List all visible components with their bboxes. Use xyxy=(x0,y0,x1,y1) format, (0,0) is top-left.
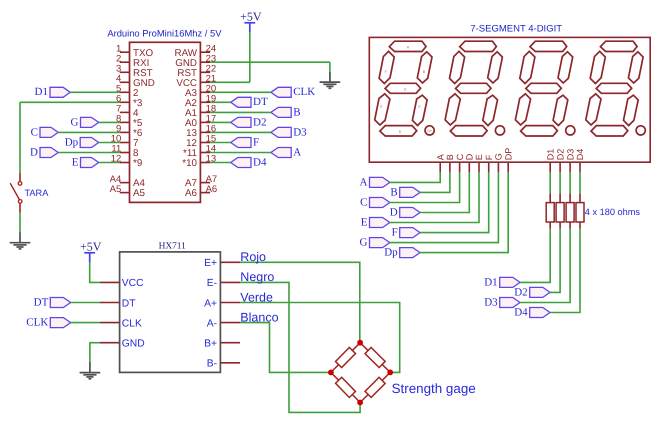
wire D to pin11 xyxy=(58,152,120,154)
module U2 HX711 body xyxy=(120,252,221,373)
svg-text:A5: A5 xyxy=(133,188,146,199)
wire D4 to resistor R4 xyxy=(550,229,580,313)
svg-text:TARA: TARA xyxy=(25,188,50,198)
wire D3 to resistor R3 xyxy=(520,229,570,303)
wire G to pin8 xyxy=(99,121,120,123)
svg-text:G: G xyxy=(404,87,407,91)
svg-text:D: D xyxy=(390,206,398,218)
svg-text:+5V: +5V xyxy=(240,10,262,24)
junction bridge right xyxy=(387,370,393,376)
wire pin19 to DT xyxy=(210,101,231,103)
wire TARA to ground xyxy=(19,213,21,232)
junction bridge bottom xyxy=(357,400,363,406)
svg-text:E: E xyxy=(72,156,79,168)
svg-text:D2: D2 xyxy=(253,116,266,128)
label D3 (digit select) xyxy=(500,298,520,308)
display digit 1 segments xyxy=(389,41,426,51)
display DS1 7-segment 4-digit body xyxy=(369,37,650,162)
display pin DP xyxy=(507,162,509,172)
display pin D3 xyxy=(569,162,571,172)
strain-gage resistor R_bl xyxy=(331,372,360,402)
svg-text:+5V: +5V xyxy=(80,240,102,254)
svg-text:D3: D3 xyxy=(565,149,575,161)
display pin B xyxy=(449,162,451,172)
strain-gage resistor R_tr xyxy=(360,343,390,373)
display pin D2 xyxy=(559,162,561,172)
svg-text:DP: DP xyxy=(503,148,513,161)
U1 pin A6 right xyxy=(200,192,210,194)
svg-text:D: D xyxy=(30,146,38,158)
svg-text:D4: D4 xyxy=(575,149,585,161)
ground (Arduino GND pin23) xyxy=(329,72,331,82)
wire pin14 to A xyxy=(210,152,271,154)
U1 pin 11 (8) left xyxy=(120,152,130,154)
U1 pin A7 right xyxy=(200,182,210,184)
wire DT to U2 xyxy=(71,302,100,304)
svg-text:Strength gage: Strength gage xyxy=(392,381,476,396)
U1 pin 6 (*3) left xyxy=(120,101,130,103)
U1 pin A4 left xyxy=(120,182,130,184)
U1 pin 7 (4) left xyxy=(120,111,130,113)
MCU U1 Arduino ProMini body xyxy=(130,42,201,202)
svg-text:F: F xyxy=(484,154,494,160)
label D (display segment D) xyxy=(400,208,420,218)
U1 pin 23 (GND) right xyxy=(200,61,210,63)
U1 pin 8 (*5) left xyxy=(120,121,130,123)
display pin D4 xyxy=(579,162,581,172)
label G (to U1 pin 8) xyxy=(81,117,99,127)
resistor R3 180 ohms xyxy=(569,172,571,193)
label D1 (to U1 pin 5) xyxy=(50,87,70,97)
junction bridge top xyxy=(357,340,363,346)
ground (TARA) xyxy=(19,232,21,242)
label B (to U1 pin 18) xyxy=(271,107,291,117)
display pin D xyxy=(468,162,470,172)
U1 pin 1 (TXO) left xyxy=(120,51,130,53)
wire D1 to resistor R1 xyxy=(520,229,550,283)
svg-text:D4: D4 xyxy=(253,156,267,168)
svg-text:D1: D1 xyxy=(545,149,555,161)
U1 pin 17 (A0) right xyxy=(200,121,210,123)
wire Dp to pin10 xyxy=(99,142,120,144)
svg-text:Verde: Verde xyxy=(240,290,273,304)
svg-text:A: A xyxy=(293,146,301,158)
wire pin20 to CLK xyxy=(210,91,271,93)
label G (display segment G) xyxy=(370,238,390,248)
display digit 2 segments xyxy=(460,41,497,51)
display pin G xyxy=(497,162,499,172)
U1 pin 22 (RST) right xyxy=(200,71,210,73)
resistor R2 180 ohms xyxy=(559,172,561,193)
label F (to U1 pin 15) xyxy=(231,138,251,148)
wire pin15 to F xyxy=(210,142,231,144)
U2 pin E+ right xyxy=(220,261,240,263)
wire pin18 to B xyxy=(210,111,271,113)
svg-text:C: C xyxy=(455,153,465,160)
display digit 2 decimal point xyxy=(495,126,504,135)
svg-text:D1: D1 xyxy=(484,276,497,288)
strain-gage resistor R_br xyxy=(360,372,390,402)
svg-text:7-SEGMENT 4-DIGIT: 7-SEGMENT 4-DIGIT xyxy=(470,24,562,35)
ground (HX711 GND) xyxy=(89,362,91,372)
U1 pin 3 (RST) left xyxy=(120,71,130,73)
wire A to display pin xyxy=(390,172,440,182)
label DT (to U2) xyxy=(50,298,70,308)
svg-text:D3: D3 xyxy=(484,296,498,308)
display pin E xyxy=(478,162,480,172)
U1 pin 5 (2) left xyxy=(120,91,130,93)
svg-text:Rojo: Rojo xyxy=(240,250,266,264)
svg-text:*9: *9 xyxy=(133,158,142,169)
svg-text:HX711: HX711 xyxy=(159,242,187,252)
display digit 3 decimal point xyxy=(566,126,575,135)
display digit 1 decimal point xyxy=(425,126,434,135)
wire Negro net (E- to bridge bottom) xyxy=(240,282,360,412)
label D4 (to U1 pin 13) xyxy=(231,158,251,168)
svg-text:D1: D1 xyxy=(35,86,48,98)
svg-text:D: D xyxy=(465,153,475,160)
svg-text:A: A xyxy=(360,176,368,188)
svg-text:GND: GND xyxy=(122,339,145,350)
U1 pin 21 (VCC) right xyxy=(200,81,210,83)
label C (display segment C) xyxy=(370,198,390,208)
svg-text:D3: D3 xyxy=(293,126,307,138)
label D (to U1 pin 11) xyxy=(40,148,58,158)
U1 pin 13 (*10) right xyxy=(200,162,210,164)
U2 pin GND left xyxy=(100,342,120,344)
U2 pin E- right xyxy=(220,281,240,283)
display pin A xyxy=(439,162,441,172)
U1 pin 10 (7) left xyxy=(120,142,130,144)
svg-text:C: C xyxy=(360,196,367,208)
svg-text:Negro: Negro xyxy=(240,270,274,284)
display digit 3 segments xyxy=(530,41,567,51)
display pin D1 xyxy=(549,162,551,172)
display pin F xyxy=(488,162,490,172)
svg-text:A6: A6 xyxy=(206,184,218,195)
U2 pin A+ right xyxy=(220,302,240,304)
wire D2 to resistor R2 xyxy=(550,229,560,293)
svg-text:DT: DT xyxy=(34,296,49,308)
wire Verde net (A+ to bridge right) xyxy=(240,303,400,373)
wire pin21 to +5V column xyxy=(210,81,250,83)
U2 pin VCC left xyxy=(100,281,120,283)
svg-text:CLK: CLK xyxy=(26,317,48,329)
U1 pin 12 (*9) left xyxy=(120,162,130,164)
svg-text:Dp: Dp xyxy=(384,247,398,259)
svg-text:CLK: CLK xyxy=(122,318,142,329)
label DT (to U1 pin 19) xyxy=(231,97,251,107)
U1 pin 19 (A2) right xyxy=(200,101,210,103)
svg-text:B: B xyxy=(390,186,397,198)
U1 pin 4 (GND) left xyxy=(120,81,130,83)
wire pin17 to D2 xyxy=(210,121,231,123)
svg-text:D4: D4 xyxy=(514,306,528,318)
svg-text:A: A xyxy=(435,154,445,160)
wire +5V to VCC xyxy=(90,263,100,283)
U1 pin 14 (*11) right xyxy=(200,152,210,154)
display pin C xyxy=(459,162,461,172)
label D2 (to U1 pin 17) xyxy=(231,117,251,127)
label D4 (digit select) xyxy=(530,308,550,318)
wire pin6 to TARA column xyxy=(20,101,120,103)
svg-text:DT: DT xyxy=(253,96,268,108)
U1 pin 18 (A1) right xyxy=(200,111,210,113)
svg-text:G: G xyxy=(71,116,79,128)
svg-text:DT: DT xyxy=(122,298,136,309)
svg-text:Arduino ProMini16Mhz / 5V: Arduino ProMini16Mhz / 5V xyxy=(107,27,222,38)
svg-text:B: B xyxy=(293,106,300,118)
svg-text:E: E xyxy=(474,154,484,160)
svg-text:D2: D2 xyxy=(514,286,527,298)
svg-text:C: C xyxy=(418,105,421,109)
display digit 4 segments xyxy=(600,41,637,51)
resistor R1 180 ohms xyxy=(549,172,551,193)
svg-text:D: D xyxy=(399,130,402,134)
wire E to pin12 xyxy=(99,162,120,164)
wire Rojo net (E+ to bridge top) xyxy=(240,262,360,342)
wire B to display pin xyxy=(420,172,450,192)
U1 pin 16 (13) right xyxy=(200,131,210,133)
svg-text:A+: A+ xyxy=(204,298,217,309)
wire TARA column vertical xyxy=(19,102,21,173)
svg-text:Dp: Dp xyxy=(65,136,79,148)
svg-text:D2: D2 xyxy=(555,149,565,161)
label A (to U1 pin 14) xyxy=(271,148,291,158)
U2 pin B- right xyxy=(220,362,240,364)
wire Blanco net (A- to bridge left) xyxy=(240,323,331,373)
label D2 (digit select) xyxy=(530,287,550,297)
wire GND to ground xyxy=(90,343,100,362)
U1 pin 9 (*6) left xyxy=(120,131,130,133)
U2 pin A- right xyxy=(220,322,240,324)
U2 pin B+ right xyxy=(220,342,240,344)
U2 pin CLK left xyxy=(100,322,120,324)
svg-text:E-: E- xyxy=(207,278,217,289)
wire pin13 to D4 xyxy=(210,162,231,164)
display digit 4 decimal point xyxy=(636,126,645,135)
svg-text:4 x 180 ohms: 4 x 180 ohms xyxy=(585,207,641,217)
label CLK (to U2) xyxy=(50,318,70,328)
U1 pin 2 (RXI) left xyxy=(120,61,130,63)
wire E to display pin xyxy=(390,172,479,222)
wire pin16 to D3 xyxy=(210,131,271,133)
label E (to U1 pin 12) xyxy=(81,158,99,168)
svg-text:C: C xyxy=(31,126,38,138)
wire F to display pin xyxy=(420,172,489,232)
label Dp (display segment Dp) xyxy=(400,248,420,258)
wire pin23 to ground column xyxy=(210,61,330,63)
svg-text:G: G xyxy=(494,153,504,160)
U1 pin 20 (A3) right xyxy=(200,91,210,93)
wire CLK to U2 xyxy=(71,322,100,324)
svg-text:A6: A6 xyxy=(185,188,198,199)
resistor R4 180 ohms xyxy=(579,172,581,193)
wire G to display pin xyxy=(390,172,499,242)
U1 pin 15 (12) right xyxy=(200,142,210,144)
junction bridge left xyxy=(328,370,334,376)
svg-text:VCC: VCC xyxy=(122,278,144,289)
svg-text:B: B xyxy=(445,154,455,160)
label A (display segment A) xyxy=(370,177,390,187)
U2 pin DT left xyxy=(100,302,120,304)
svg-text:*10: *10 xyxy=(182,158,197,169)
label C (to U1 pin 9) xyxy=(40,127,58,137)
wire D to display pin xyxy=(420,172,469,212)
wire C to pin9 xyxy=(58,131,120,133)
wire D1 to pin5 xyxy=(70,91,120,93)
svg-text:F: F xyxy=(392,227,398,239)
label F (display segment F) xyxy=(400,228,420,238)
label B (display segment B) xyxy=(400,187,420,197)
svg-text:B-: B- xyxy=(207,359,217,370)
svg-text:B+: B+ xyxy=(204,339,217,350)
svg-text:G: G xyxy=(360,237,368,249)
U1 pin A5 left xyxy=(120,192,130,194)
svg-text:E: E xyxy=(361,216,368,228)
label D1 (digit select) xyxy=(500,277,520,287)
label D3 (to U1 pin 16) xyxy=(271,127,291,137)
wire +5V down to pin21 row xyxy=(249,33,251,83)
svg-text:F: F xyxy=(253,136,259,148)
svg-text:A5: A5 xyxy=(110,184,122,195)
label CLK (to U1 pin 20) xyxy=(271,87,291,97)
svg-text:E+: E+ xyxy=(204,258,217,269)
svg-text:Blanco: Blanco xyxy=(240,310,278,324)
U1 pin 24 (RAW) right xyxy=(200,51,210,53)
wire C to display pin xyxy=(390,172,460,202)
svg-text:DP: DP xyxy=(427,129,431,133)
svg-text:CLK: CLK xyxy=(293,86,315,98)
wire Dp to display pin xyxy=(420,172,508,252)
label E (display segment E) xyxy=(370,218,390,228)
wire ground column vertical xyxy=(329,62,331,72)
strain-gage resistor R_tl xyxy=(331,343,360,373)
switch SW1 TARA xyxy=(19,173,21,182)
label Dp (to U1 pin 10) xyxy=(80,138,99,148)
svg-text:A-: A- xyxy=(207,318,217,329)
